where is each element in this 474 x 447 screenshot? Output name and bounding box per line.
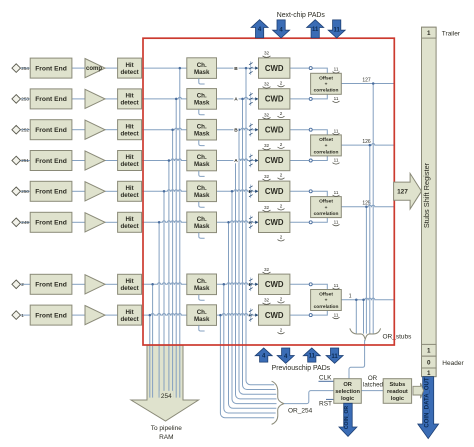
svg-text:Ch.: Ch. [197, 185, 207, 192]
svg-text:Front End: Front End [35, 189, 67, 196]
svg-text:11: 11 [309, 353, 316, 359]
input pad diamond 251 [12, 156, 21, 165]
OR gate OR_stubs [350, 328, 381, 339]
svg-text:Mask: Mask [194, 285, 210, 292]
svg-text:2: 2 [280, 204, 283, 209]
svg-text:2: 2 [280, 142, 283, 147]
svg-text:detect: detect [120, 100, 138, 107]
wire comparator to HitDetect row 7 [105, 283, 118, 285]
svg-text:2: 2 [280, 80, 283, 85]
svg-text:selection: selection [335, 389, 360, 395]
Ch.Mask latch hook row 7 [199, 295, 205, 301]
svg-text:A: A [234, 158, 238, 164]
junction stub collector 4 [362, 298, 365, 301]
block Stubs readout logic [383, 379, 411, 404]
svg-text:2: 2 [280, 235, 283, 240]
svg-text:A: A [234, 97, 238, 103]
svg-text:detect: detect [120, 285, 138, 292]
CWD input bus ticks row 3 [249, 123, 258, 137]
svg-text:Front End: Front End [35, 96, 67, 103]
svg-text:B: B [234, 66, 238, 72]
junction mask-bus row 5 [231, 190, 234, 193]
svg-text:correlation: correlation [314, 304, 339, 310]
pad arrow previous-chip out 11 [303, 348, 320, 362]
OR gate OR_254 [272, 381, 284, 424]
block Hit detect row 1 [118, 58, 142, 78]
svg-text:Offset: Offset [319, 292, 333, 298]
red boundary box [143, 38, 394, 345]
label 254 knockout [160, 391, 174, 399]
svg-text:Front End: Front End [35, 158, 67, 165]
bus width 2 annotation CWD row 7 [278, 297, 285, 304]
wire RST [326, 398, 334, 400]
wire CWD8 C output to offset4 [290, 311, 327, 316]
svg-text:1: 1 [21, 313, 24, 318]
wire HitDetect to ChMask row 3 [142, 128, 187, 130]
wire stub collector 2 to OR_stubs [369, 145, 371, 334]
bus width 11 annotation top offset 3 [333, 190, 340, 196]
wire stub collector 5 to OR_stubs [355, 300, 357, 334]
svg-text:1: 1 [427, 348, 431, 355]
svg-text:11: 11 [334, 96, 339, 101]
block CWD row 2 [259, 89, 290, 109]
wire hit-bus vertical row 6 [158, 222, 160, 397]
svg-text:32: 32 [264, 51, 270, 56]
wire comparator to HitDetect row 6 [105, 221, 118, 223]
bus width 11 annotation top offset 4 [333, 283, 340, 289]
bus width 2 annotation CWD row 4 [278, 173, 285, 180]
svg-text:32: 32 [264, 174, 270, 179]
wire mask-bus vertical row 4 to OR_254 [236, 161, 277, 399]
bus width 32 annotation CWD row 3 [263, 112, 271, 119]
svg-text:2: 2 [280, 327, 283, 332]
node circle C pair 3 [309, 221, 312, 224]
block Front End row 6 [30, 212, 72, 232]
junction hit-bus row 7 [151, 283, 154, 286]
svg-text:11: 11 [334, 67, 339, 72]
node circle C pair 1 [309, 97, 312, 100]
block CWD row 4 [259, 150, 290, 170]
block Front End row 4 [30, 151, 72, 171]
node circle D pair 4 [309, 283, 312, 286]
wire mask-bus vertical row 1 to OR_254 [246, 68, 274, 385]
junction mask-bus row 1 [245, 67, 248, 70]
bus width 2 annotation CWD row 5 [278, 204, 285, 211]
svg-text:OR_stubs: OR_stubs [383, 334, 413, 341]
wire FrontEnd to comparator row 1 [72, 67, 85, 69]
junction hit-bus row 8 [149, 314, 152, 317]
bus width 11 annotation top offset 1 [333, 67, 340, 73]
node circle D pair 3 [309, 190, 312, 193]
bus width 32 annotation CWD row 8 [263, 298, 271, 305]
svg-text:+: + [325, 144, 328, 149]
Ch.Mask latch hook row 4 [199, 171, 205, 177]
junction stub collector 3 [365, 206, 368, 209]
wire pad250 to FrontEnd row 5 [20, 190, 30, 192]
bus width 2 annotation CWD row 3 [278, 142, 285, 149]
svg-text:32: 32 [264, 267, 270, 272]
block Front End row 8 [30, 305, 72, 325]
wire comparator to HitDetect row 2 [105, 98, 118, 100]
wire FrontEnd to comparator row 7 [72, 283, 85, 285]
svg-text:Hit: Hit [125, 278, 133, 285]
svg-text:readout: readout [387, 389, 408, 395]
wire CWD3 D output to offset2 [290, 130, 327, 135]
junction mask-bus row 6 [227, 221, 230, 224]
wire stub collector 1 to OR_stubs [372, 84, 374, 334]
node label A row 4 [233, 158, 238, 165]
input pad diamond 254 [12, 64, 21, 73]
svg-text:32: 32 [264, 205, 270, 210]
svg-text:detect: detect [120, 130, 138, 137]
svg-text:detect: detect [120, 192, 138, 199]
svg-text:+: + [325, 83, 328, 88]
svg-text:Mask: Mask [194, 130, 210, 137]
svg-text:latched: latched [363, 381, 384, 388]
svg-text:254: 254 [161, 393, 172, 400]
bus width 11 annotation top offset 2 [333, 128, 340, 134]
svg-text:11: 11 [334, 158, 339, 163]
bus width 2 annotation CWD row 2 [278, 111, 285, 118]
wire hit-bus vertical row 1 [179, 68, 181, 398]
svg-text:Next-chip PADs: Next-chip PADs [277, 12, 326, 19]
svg-text:Mask: Mask [194, 100, 210, 107]
input pad diamond 250 [12, 187, 21, 196]
svg-text:Offset: Offset [319, 137, 333, 143]
svg-text:32: 32 [264, 112, 270, 117]
svg-text:Previouschip PADs: Previouschip PADs [272, 365, 331, 372]
svg-text:Hit: Hit [125, 309, 133, 316]
block Stubs Shift Register [422, 27, 437, 376]
svg-text:127: 127 [362, 77, 371, 83]
wire hit-bus vertical row 8 [149, 315, 151, 398]
svg-text:Stubs Shift Register: Stubs Shift Register [422, 162, 431, 228]
CWD input bus ticks row 2 [249, 92, 258, 106]
svg-text:11: 11 [312, 27, 319, 33]
svg-text:OR_254: OR_254 [288, 408, 313, 415]
svg-text:logic: logic [391, 396, 404, 402]
wire comparator to HitDetect row 5 [105, 190, 118, 192]
bus width 32 annotation CWD row 1 [263, 51, 271, 58]
block Front End row 5 [30, 181, 72, 201]
svg-text:11: 11 [334, 283, 339, 288]
bus width 32 annotation CWD row 4 [263, 143, 271, 150]
bus width 11 annotation bottom offset 2 [333, 158, 340, 164]
bus width 2 annotation CWD row 8 [278, 327, 285, 334]
svg-text:11: 11 [334, 128, 339, 133]
wire pad254 to FrontEnd row 1 [20, 67, 30, 69]
svg-text:Ch.: Ch. [197, 309, 207, 316]
svg-text:COIN_OR: COIN_OR [344, 406, 350, 430]
svg-text:Front End: Front End [35, 282, 67, 289]
pad arrow previous-chip out 4 [255, 348, 272, 362]
junction hit-bus row 6 [158, 221, 161, 224]
wire ChMask to CWD row 5 [217, 190, 259, 192]
register header cell 1 [422, 344, 437, 356]
block CWD row 3 [259, 120, 290, 140]
svg-text:Front End: Front End [35, 65, 67, 72]
comparator triangle row 6 [85, 213, 105, 232]
block Hit detect row 4 [118, 151, 142, 171]
junction hit-bus row 3 [171, 128, 174, 131]
wire CWD4 C output to offset2 [290, 156, 327, 161]
svg-text:+: + [325, 206, 328, 211]
pad arrow next-chip out 4 [251, 20, 268, 38]
wire comparator to HitDetect row 4 [105, 160, 118, 162]
input pad diamond 1 [12, 311, 21, 320]
wire pad251 to FrontEnd row 4 [20, 160, 30, 162]
block Hit detect row 3 [118, 120, 142, 140]
wire HitDetect to ChMask row 6 [142, 221, 187, 223]
svg-text:250: 250 [21, 189, 29, 194]
wire comparator to HitDetect row 3 [105, 129, 118, 131]
svg-text:Trailer: Trailer [442, 30, 461, 37]
block Hit detect row 8 [118, 305, 142, 325]
wire HitDetect to ChMask row 1 [142, 67, 187, 69]
block arrow stubs readout to register [413, 383, 424, 398]
svg-text:Mask: Mask [194, 223, 210, 230]
junction stub collector 1 [372, 82, 375, 85]
svg-text:Header: Header [442, 360, 464, 367]
wire mask-bus vertical row 5 to OR_254 [232, 191, 277, 403]
block Offset correlation pair 4 [311, 290, 342, 311]
wire comparator to HitDetect row 8 [105, 314, 118, 316]
node circle C pair 4 [309, 314, 312, 317]
svg-text:Ch.: Ch. [197, 154, 207, 161]
wire hit-bus vertical row 3 [172, 130, 174, 398]
wire HitDetect to ChMask row 4 [142, 159, 187, 161]
svg-text:Front End: Front End [35, 312, 67, 319]
svg-text:CWD: CWD [265, 311, 284, 320]
register header cell 1b [422, 368, 437, 377]
junction mask-bus row 8 [219, 314, 222, 317]
wire CLK [319, 380, 334, 382]
comparator triangle row 7 [85, 275, 105, 294]
svg-text:251: 251 [21, 158, 29, 163]
svg-text:correlation: correlation [314, 211, 339, 217]
svg-text:CWD: CWD [265, 125, 284, 134]
Ch.Mask latch hook row 8 [199, 325, 205, 331]
block Hit detect row 2 [118, 89, 142, 109]
svg-text:logic: logic [341, 396, 354, 402]
wire hit-bus vertical row 4 [168, 161, 170, 398]
wire offset1 output to stub register [341, 83, 394, 85]
node label B row 3 [233, 127, 238, 133]
bus width 32 annotation CWD row 2 [263, 82, 271, 89]
pad arrow next-chip in 4 [273, 20, 290, 38]
Ch.Mask latch hook row 6 [199, 233, 205, 239]
wire mask-bus vertical row 2 to OR_254 [243, 99, 276, 390]
pad arrow COIN_OR [339, 403, 357, 436]
svg-text:Hit: Hit [125, 62, 133, 69]
svg-text:Hit: Hit [125, 185, 133, 192]
wire FrontEnd to comparator row 8 [72, 314, 85, 316]
Ch.Mask latch hook row 5 [199, 202, 205, 208]
input pad diamond 253 [12, 95, 21, 104]
junction hit-bus row 1 [179, 67, 182, 70]
block CWD row 5 [259, 181, 290, 201]
junction stub collector 5 [355, 298, 358, 301]
svg-text:254: 254 [21, 66, 29, 71]
bus width 11 annotation bottom offset 1 [333, 96, 340, 102]
block Ch. Mask row 3 [187, 119, 217, 140]
register header cell 0 [422, 356, 437, 368]
bus width 32 annotation CWD row 6 [263, 205, 271, 212]
wire comparator to HitDetect row 1 [105, 67, 118, 69]
svg-text:CWD: CWD [265, 187, 284, 196]
wire mask-bus vertical row 3 to OR_254 [239, 130, 276, 395]
CWD input bus ticks row 1 [249, 61, 258, 75]
svg-text:11: 11 [334, 27, 341, 33]
wire CWD6 C output to offset3 [290, 218, 327, 223]
svg-text:detect: detect [120, 223, 138, 230]
wire CWD1 D output to offset1 [290, 68, 327, 73]
block Offset correlation pair 1 [311, 73, 342, 94]
svg-text:2: 2 [280, 297, 283, 302]
Ch.Mask latch hook row 2 [199, 109, 205, 115]
node circle C pair 2 [309, 159, 312, 162]
block Ch. Mask row 8 [187, 305, 217, 326]
block Front End row 2 [30, 89, 72, 109]
wire offset4 output to stub register [341, 298, 394, 300]
wire pad253 to FrontEnd row 2 [20, 98, 30, 100]
svg-text:RST: RST [319, 400, 332, 407]
svg-text:127: 127 [397, 189, 408, 196]
wire hit-bus vertical row 7 [152, 284, 154, 397]
CWD input bus ticks row 5 [249, 185, 258, 199]
block Ch. Mask row 4 [187, 150, 217, 171]
svg-text:249: 249 [21, 220, 29, 225]
svg-text:CWD: CWD [265, 280, 284, 289]
junction hit-bus row 4 [168, 159, 171, 162]
bus width 2 annotation CWD row 6 [278, 235, 285, 242]
wire ChMask to CWD row 2 [217, 97, 259, 99]
register trailer cell 1 [422, 27, 437, 38]
svg-text:Front End: Front End [35, 127, 67, 134]
svg-text:Ch.: Ch. [197, 62, 207, 69]
pad arrow COIN_DATA_OUT [418, 377, 439, 439]
block CWD row 7 [259, 274, 290, 294]
block CWD row 1 [259, 58, 290, 78]
block Ch. Mask row 5 [187, 181, 217, 202]
wire ChMask to CWD row 1 [217, 67, 259, 69]
wire CWD7 D output to offset4 [290, 284, 327, 289]
svg-text:CWD: CWD [265, 218, 284, 227]
svg-text:comp: comp [86, 66, 102, 72]
svg-text:correlation: correlation [314, 149, 339, 155]
wire OR_254 output to OR-selection-logic [284, 391, 334, 404]
wire pad252 to FrontEnd row 3 [20, 129, 30, 131]
svg-text:1: 1 [427, 370, 431, 377]
svg-text:To pipeline: To pipeline [151, 425, 182, 432]
input pad diamond 2 [12, 280, 21, 289]
svg-text:B: B [234, 127, 238, 133]
block CWD row 6 [259, 212, 290, 232]
comparator triangle row 4 [85, 151, 105, 170]
svg-text:0: 0 [427, 360, 431, 367]
svg-text:2: 2 [280, 111, 283, 116]
svg-text:Hit: Hit [125, 123, 133, 130]
node circle D pair 2 [309, 128, 312, 131]
svg-text:1: 1 [349, 294, 352, 300]
node label B row 1 [233, 65, 238, 72]
block Ch. Mask row 2 [187, 89, 217, 110]
junction mask-bus row 2 [241, 98, 244, 101]
wire pad249 to FrontEnd row 6 [20, 221, 30, 223]
comparator triangle row 1 (comp) [85, 59, 105, 78]
junction stub collector 2 [369, 144, 372, 147]
junction mask-bus row 3 [238, 128, 241, 131]
CWD input bus ticks row 8 [249, 308, 258, 322]
block Offset correlation pair 3 [311, 197, 342, 218]
wire offset2 output to stub register [341, 144, 394, 146]
wire pad1 to FrontEnd row 8 [20, 314, 30, 316]
Ch.Mask latch hook row 3 [199, 140, 205, 146]
svg-text:CWD: CWD [265, 64, 284, 73]
block Hit detect row 7 [118, 274, 142, 294]
bus width 11 annotation bottom offset 3 [333, 219, 340, 225]
node circle D pair 1 [309, 67, 312, 70]
svg-text:1: 1 [427, 30, 431, 37]
wire OR latched [361, 390, 383, 392]
wire FrontEnd to comparator row 2 [72, 98, 85, 100]
svg-text:detect: detect [120, 316, 138, 323]
wire ChMask to CWD row 6 [217, 221, 259, 223]
svg-text:Mask: Mask [194, 316, 210, 323]
svg-text:Offset: Offset [319, 199, 333, 205]
wire stub collector 4 to OR_stubs [363, 300, 365, 334]
block OR selection logic [334, 379, 362, 404]
svg-text:detect: detect [120, 69, 138, 76]
block Offset correlation pair 2 [311, 135, 342, 156]
svg-text:Ch.: Ch. [197, 93, 207, 100]
comparator triangle row 2 [85, 89, 105, 108]
wire ChMask to CWD row 8 [217, 314, 259, 316]
svg-text:11: 11 [331, 354, 338, 360]
junction hit-bus row 5 [163, 190, 166, 193]
block Hit detect row 6 [118, 212, 142, 232]
wire pad2 to FrontEnd row 7 [20, 283, 30, 285]
pad arrow previous-chip in 4 [277, 348, 294, 363]
svg-text:32: 32 [264, 82, 270, 87]
pad arrow next-chip out 11 [307, 20, 324, 38]
svg-text:32: 32 [264, 298, 270, 303]
svg-text:11: 11 [334, 190, 339, 195]
svg-text:+: + [325, 299, 328, 304]
svg-text:Offset: Offset [319, 75, 333, 81]
wire HitDetect to ChMask row 2 [142, 97, 187, 99]
input pad diamond 252 [12, 125, 21, 134]
svg-text:Mask: Mask [194, 161, 210, 168]
svg-text:253: 253 [21, 97, 29, 102]
svg-text:252: 252 [21, 127, 29, 132]
svg-text:Hit: Hit [125, 216, 133, 223]
wire offset3 output to stub register [341, 205, 394, 207]
block Hit detect row 5 [118, 181, 142, 201]
wire FrontEnd to comparator row 5 [72, 190, 85, 192]
svg-text:Front End: Front End [35, 220, 67, 227]
svg-text:Stubs: Stubs [389, 382, 405, 388]
svg-text:OR: OR [343, 382, 352, 388]
block arrow 254 to pipeline RAM [131, 345, 199, 421]
block Front End row 1 [30, 58, 72, 78]
wire HitDetect to ChMask row 5 [142, 190, 187, 192]
CWD input bus ticks row 4 [249, 154, 258, 168]
wire mask-bus vertical row 8 to OR_254 [220, 315, 274, 418]
svg-text:11: 11 [334, 312, 339, 317]
svg-text:Hit: Hit [125, 154, 133, 161]
wire ChMask to CWD row 4 [217, 159, 259, 161]
